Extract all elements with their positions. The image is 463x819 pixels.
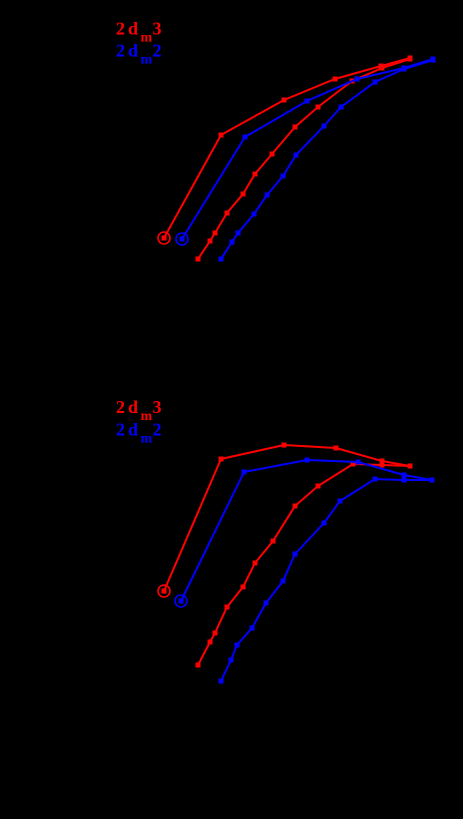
bottom red curve B xyxy=(196,462,413,668)
bottom blue curve A xyxy=(179,458,435,604)
top red start circle xyxy=(158,232,170,244)
bottom blue start circle xyxy=(175,595,187,607)
bottom blue curve B xyxy=(219,477,435,684)
bottom red curve A xyxy=(162,443,413,594)
top blue start circle xyxy=(176,233,188,245)
top red curve B xyxy=(196,57,413,262)
bottom red start circle xyxy=(158,585,170,597)
top red curve A xyxy=(162,56,413,241)
top blue curve B xyxy=(219,58,436,262)
top blue curve A xyxy=(180,57,436,242)
